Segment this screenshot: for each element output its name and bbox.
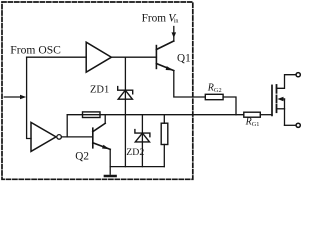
MOSFET source rail down [284, 99, 286, 125]
wire: bottom bus [110, 166, 164, 168]
MOSFET body arrow wire [281, 98, 285, 100]
arrowhead on Vin wire [172, 32, 177, 38]
arrowhead Q2 emitter [102, 145, 110, 150]
MOSFET source lead [285, 124, 296, 126]
ground [105, 175, 116, 178]
zener diode ZD2 [135, 130, 150, 142]
svg-text:ZD2: ZD2 [126, 147, 144, 158]
transistor Q2 [93, 123, 110, 149]
MOSFET gate bar [271, 85, 273, 115]
svg-text:in: in [174, 19, 179, 25]
wire: OSC output horizontal [27, 56, 87, 58]
MOSFET body arrowhead [277, 97, 283, 102]
MOSFET drain terminal [296, 73, 300, 77]
resistor (clamp, vertical) [161, 123, 168, 144]
svg-text:ZD1: ZD1 [90, 85, 109, 96]
wire: Q1 emitter down and right to RG2 [174, 71, 206, 97]
resistor RG2 [205, 94, 223, 99]
wire: from Vin down to Q1 collector corner [173, 27, 175, 42]
wire: Q2 emitter down to ground [109, 149, 111, 174]
arrowhead on input wire [20, 95, 26, 99]
inverter (triangle with bubble) [31, 122, 56, 151]
wire: clamp resistor branch [163, 115, 165, 124]
svg-text:From: From [142, 12, 167, 24]
wire: ZD1 branch vertical [124, 57, 126, 166]
resistor RG1 [244, 112, 260, 117]
transistor Q1 [156, 41, 173, 71]
svg-text:RG2: RG2 [207, 83, 222, 94]
MOSFET source terminal [296, 123, 300, 127]
svg-text:Q2: Q2 [75, 151, 89, 163]
svg-text:From OSC: From OSC [10, 44, 61, 57]
wire: long horizontal gate/clamp line [67, 114, 244, 116]
buffer amplifier (triangle) [86, 42, 111, 72]
wire: ZD2 branch vertical [141, 115, 143, 167]
svg-text:RG1: RG1 [245, 117, 260, 128]
inverter bubble [57, 135, 62, 140]
wire: RG2 to junction, drop to gate line [223, 97, 236, 115]
wire: input arrow from left border [4, 96, 21, 98]
MOSFET drain lead [277, 75, 296, 89]
wire: feedback branch up from inverter output [66, 115, 68, 137]
svg-text:Q1: Q1 [177, 52, 191, 64]
MOSFET channel segments [276, 85, 278, 112]
resistor (Q2 collector feedback) [83, 112, 101, 118]
wire: left vertical down to inverter input [27, 57, 31, 138]
wire: Q2 collector up to long line [104, 115, 106, 124]
wire: RG1 to MOSFET gate [260, 114, 272, 116]
arrowhead Q1 emitter [166, 66, 174, 70]
dashed enclosure border [2, 2, 193, 179]
zener diode ZD1 [118, 87, 133, 100]
wire: inverter output to Q2 base [61, 136, 92, 138]
wire: clamp resistor to bus [163, 145, 165, 167]
wire: buffer output to Q1 base [111, 56, 156, 58]
MOSFET source tap [277, 108, 285, 110]
